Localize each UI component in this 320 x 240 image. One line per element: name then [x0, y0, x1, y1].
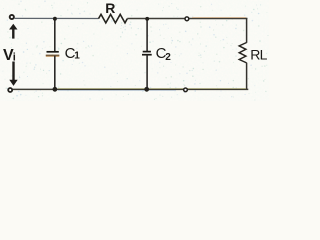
- input arrow down: [12, 62, 14, 81]
- capacitor C2 bottom lead: [146, 55, 148, 90]
- resistor R zigzag: [99, 14, 128, 23]
- wire top left segment: [15, 17, 99, 19]
- capacitor C1 top lead: [54, 19, 56, 52]
- capacitor C1 bottom lead: [54, 56, 56, 90]
- wire bottom scan fringe: [58, 87, 246, 89]
- svg-text:2: 2: [165, 52, 171, 63]
- junction dot bottom C2: [144, 87, 149, 92]
- capacitor C1 bottom plate: [46, 55, 60, 57]
- terminal circle bottom-middle: [184, 88, 188, 92]
- capacitor C2 top plate: [143, 51, 151, 53]
- junction dot top C1: [53, 17, 57, 21]
- resistor RL zigzag: [239, 43, 246, 63]
- terminal circle top-middle: [185, 17, 189, 21]
- wire top scan fringe: [192, 17, 246, 19]
- wire right vertical lower: [246, 63, 248, 90]
- svg-text:1: 1: [74, 51, 80, 62]
- input arrow up: [9, 24, 17, 30]
- junction dot top C2: [145, 17, 149, 21]
- wire bottom: [13, 88, 249, 90]
- capacitor C2 bottom plate: [142, 54, 152, 56]
- terminal circle bottom-left: [8, 88, 12, 92]
- wire top right segment: [127, 18, 247, 20]
- background paper: [0, 0, 269, 101]
- terminal circle top-left: [10, 15, 14, 19]
- capacitor C2 top lead: [146, 19, 148, 52]
- capacitor C1 top plate: [47, 51, 59, 53]
- svg-text:RL: RL: [250, 47, 267, 63]
- wire right vertical upper: [246, 18, 248, 43]
- svg-text:R: R: [105, 0, 115, 16]
- junction dot bottom C1: [53, 87, 58, 92]
